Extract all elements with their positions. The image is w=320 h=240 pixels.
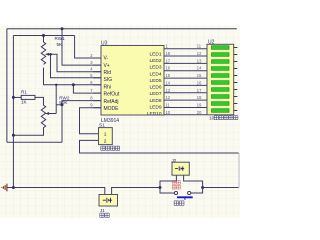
svg-text:11: 11 <box>197 44 202 49</box>
svg-text:10: 10 <box>166 110 171 115</box>
pin 6 Rhi <box>93 84 101 86</box>
node: ground junction <box>12 186 15 189</box>
node: wiper/RefAdj junction <box>61 103 64 106</box>
node: RW2 bottom return junction <box>12 134 15 137</box>
wire: riser x56 from Rhi line to wiper <box>55 85 57 114</box>
node: switch block right junction <box>201 186 204 189</box>
svg-text:11: 11 <box>166 103 171 108</box>
svg-text:LED10: LED10 <box>147 111 162 117</box>
svg-text:J1: J1 <box>100 208 105 213</box>
label battery <box>100 213 109 217</box>
node A: top rail junction <box>61 27 64 30</box>
svg-text:13: 13 <box>166 88 171 93</box>
switch contacts <box>174 191 177 194</box>
switch SW branch <box>160 188 174 194</box>
svg-text:LED6: LED6 <box>150 85 162 91</box>
wire: rail between junction and right riser <box>203 187 239 189</box>
svg-text:RW1: RW1 <box>55 36 66 41</box>
svg-text:V-: V- <box>104 56 109 62</box>
svg-text:10: 10 <box>209 116 215 122</box>
node: R1 left junction <box>12 96 15 99</box>
switch blade <box>177 196 193 198</box>
svg-text:MODE: MODE <box>104 106 120 112</box>
label power-indicator line2 <box>172 185 180 189</box>
wire: LED bus rows U3 to U2 with pin numbers <box>164 49 207 115</box>
node: riser top junction <box>55 84 57 86</box>
wire: line2 ground feeder <box>13 35 74 37</box>
label display-select <box>101 146 120 150</box>
svg-text:18: 18 <box>197 95 202 100</box>
svg-text:U3: U3 <box>101 41 108 47</box>
op-amp U3 LM3914 body <box>101 46 164 116</box>
pin numbers U3 right <box>166 44 171 115</box>
svg-text:18: 18 <box>166 51 171 56</box>
svg-text:17: 17 <box>197 88 202 93</box>
wire: pin6-pin7 RefOut link <box>73 85 101 93</box>
wire: J2 branch <box>160 175 176 187</box>
battery J1 <box>99 195 118 207</box>
label switch <box>174 201 184 206</box>
potentiometer RW1 <box>41 36 45 65</box>
svg-text:5K: 5K <box>57 42 64 47</box>
wire: RW1 bottom to pin6 Rhi <box>44 68 102 85</box>
connector J2 <box>172 162 189 175</box>
wire: link to RefAdj riser <box>56 104 62 106</box>
svg-text:U2: U2 <box>208 40 215 46</box>
wire: MODE to S1 pin1 <box>80 108 102 134</box>
svg-text:14: 14 <box>166 80 171 85</box>
node: Rhi/RefOut junction <box>72 83 75 86</box>
pin 8 RefAdj <box>93 100 101 102</box>
svg-text:1K: 1K <box>21 100 28 105</box>
svg-text:LED9: LED9 <box>150 104 162 110</box>
svg-text:SIG: SIG <box>104 77 113 83</box>
svg-text:17: 17 <box>166 58 171 63</box>
wire: RW2 wiper line <box>46 113 57 115</box>
svg-text:LED1: LED1 <box>150 52 162 58</box>
wire: bottom rail right of battery <box>112 188 160 195</box>
svg-text:15: 15 <box>166 73 171 78</box>
svg-text:19: 19 <box>197 103 202 108</box>
pin 3 V+ <box>93 64 101 66</box>
svg-text:14: 14 <box>197 66 202 71</box>
wire: left inner vertical (V2) <box>12 36 14 188</box>
wire: S1 pin2 to +V feed line <box>80 140 239 153</box>
svg-text:LED5: LED5 <box>150 78 162 84</box>
svg-text:16: 16 <box>166 66 171 71</box>
pin numbers U2 left <box>197 44 202 115</box>
wire: RW1 wiper to pins 4/5 <box>46 54 101 71</box>
LED bargraph U2 body <box>207 44 234 115</box>
pin 5 SIG <box>93 77 101 79</box>
wire: bottom rail left of battery <box>13 188 104 195</box>
svg-text:LED8: LED8 <box>150 98 162 104</box>
pin 2 V- <box>93 57 101 59</box>
svg-text:RefAdj: RefAdj <box>104 99 119 105</box>
svg-text:13: 13 <box>197 58 202 63</box>
svg-text:2: 2 <box>104 138 107 144</box>
connector S1 <box>99 128 113 145</box>
svg-text:Rld: Rld <box>104 70 112 76</box>
wire: V- pin2 feed <box>75 36 101 59</box>
node: switch block left junction <box>159 186 162 189</box>
label power-indicator line1 <box>172 181 180 185</box>
wire: V+ pin3 riser from top rail <box>62 29 101 65</box>
wire: left outer vertical (V1) <box>6 29 8 143</box>
svg-text:J2: J2 <box>172 158 177 163</box>
U2 right stubs <box>234 48 238 111</box>
svg-text:LED2: LED2 <box>150 58 162 64</box>
ground <box>7 187 13 189</box>
svg-text:Rhi: Rhi <box>104 84 112 90</box>
wire: bottom link V1 to x62 riser <box>7 141 62 143</box>
svg-text:12: 12 <box>166 95 171 100</box>
svg-text:LED7: LED7 <box>150 91 162 97</box>
pin 7 RefOut <box>93 92 101 94</box>
resistor R1 <box>13 96 21 98</box>
LED bars <box>212 46 230 113</box>
svg-text:R1: R1 <box>21 89 27 94</box>
svg-text:16: 16 <box>197 80 202 85</box>
sheet background <box>0 26 240 219</box>
svg-text:12: 12 <box>197 51 202 56</box>
svg-text:S1: S1 <box>99 123 105 128</box>
svg-text:LED3: LED3 <box>150 65 162 71</box>
wire: x62 lower riser + pin8 RefAdj wire <box>62 101 101 143</box>
pin 9 MODE <box>93 107 101 109</box>
node: RW1 top junction <box>42 34 45 37</box>
svg-text:15: 15 <box>197 73 202 78</box>
svg-text:20: 20 <box>197 110 202 115</box>
svg-text:LED4: LED4 <box>150 71 162 77</box>
pin 4 Rld <box>93 71 101 73</box>
svg-text:RefOut: RefOut <box>104 92 120 98</box>
wire: top rail <box>7 28 237 30</box>
potentiometer RW2 <box>13 105 45 135</box>
svg-text:V+: V+ <box>104 63 110 69</box>
svg-text:1: 1 <box>104 132 107 138</box>
